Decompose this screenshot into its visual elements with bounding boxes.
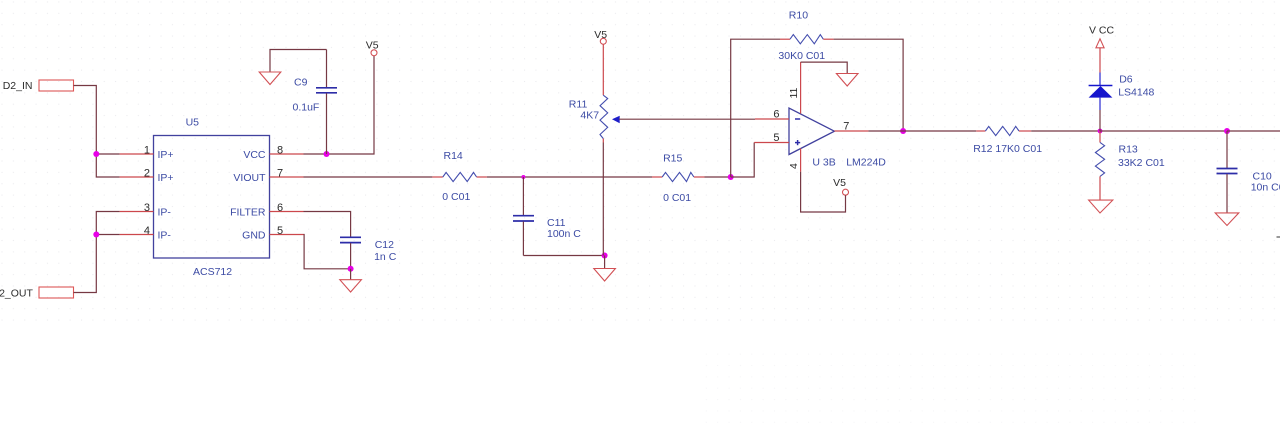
- svg-text:R15: R15: [663, 153, 682, 165]
- svg-text:LM224D: LM224D: [846, 157, 886, 169]
- svg-text:5: 5: [277, 225, 283, 237]
- U5 pin 4: [120, 225, 154, 237]
- wire R15 to feedback node: [705, 176, 731, 178]
- svg-text:1n C: 1n C: [374, 251, 397, 263]
- ground at R13: [1089, 200, 1113, 213]
- svg-text:VIOUT: VIOUT: [233, 172, 266, 184]
- svg-text:IP+: IP+: [158, 172, 174, 184]
- wire R10 to output node: [834, 39, 904, 131]
- svg-text:8: 8: [277, 144, 283, 156]
- wire FILTER to C12: [304, 212, 351, 237]
- wire C11 bottom to ground node: [523, 255, 604, 257]
- wire node to C10: [1100, 130, 1227, 132]
- svg-text:3: 3: [144, 202, 150, 214]
- wire VCC to D6: [1099, 48, 1101, 73]
- resistor R15: [652, 153, 705, 205]
- ground at C11: [594, 256, 616, 282]
- U3B pin 4 stub: [788, 149, 801, 172]
- capacitor C11: [513, 177, 581, 256]
- svg-text:10n C01: 10n C01: [1251, 182, 1280, 194]
- svg-text:6: 6: [773, 109, 779, 121]
- svg-text:D2_OUT: D2_OUT: [0, 288, 34, 300]
- junction C9/VCC node: [324, 151, 330, 157]
- svg-text:C12: C12: [375, 239, 394, 251]
- svg-text:U 3B: U 3B: [812, 157, 835, 169]
- wire output row to R12: [868, 130, 976, 132]
- svg-text:GND: GND: [242, 229, 266, 241]
- U5 pin 8: [270, 144, 304, 156]
- wire pin4 to V5: [801, 172, 846, 212]
- svg-text:V5: V5: [833, 177, 846, 189]
- U5 pin 7: [270, 167, 304, 179]
- wire R12 to D6 node: [1031, 130, 1100, 132]
- svg-text:U5: U5: [186, 117, 200, 129]
- edge mark right: [1277, 236, 1280, 238]
- IC U5 ACS712 box: [154, 136, 270, 259]
- svg-text:IP-: IP-: [158, 206, 172, 218]
- svg-text:IP-: IP-: [158, 229, 172, 241]
- wire VCC pin8 to V5: [304, 56, 375, 154]
- svg-text:2: 2: [144, 167, 150, 179]
- junction node IN: [93, 151, 99, 157]
- power V5 top: [366, 40, 379, 56]
- ground at C12: [340, 269, 362, 292]
- junction output node: [900, 128, 906, 134]
- resistor R14: [432, 150, 487, 203]
- svg-text:30K0 C01: 30K0 C01: [778, 50, 825, 62]
- svg-text:R10: R10: [789, 10, 808, 22]
- wire D2_IN to U5 pins 1/2: [74, 86, 120, 178]
- svg-text:R14: R14: [444, 150, 463, 162]
- wire GND pin5 to C12 node: [304, 235, 351, 269]
- ground at pin11: [836, 74, 858, 87]
- resistor R10: [778, 10, 833, 63]
- wire C9 to ground: [270, 50, 327, 73]
- svg-text:4K7: 4K7: [580, 110, 599, 122]
- svg-text:IP+: IP+: [158, 149, 174, 161]
- svg-text:0 C01: 0 C01: [442, 191, 470, 203]
- U5 pin 1: [120, 144, 154, 156]
- resistor R12: [973, 126, 1042, 155]
- ground at C9: [259, 72, 281, 85]
- wire feedback left leg: [731, 39, 780, 177]
- U5 pin names: [158, 149, 267, 242]
- power VCC: [1089, 25, 1115, 48]
- junction D6 node: [1098, 129, 1103, 134]
- svg-text:33K2 C01: 33K2 C01: [1118, 157, 1165, 169]
- port D2_OUT: [0, 287, 74, 300]
- svg-text:R12 17K0 C01: R12 17K0 C01: [973, 143, 1042, 155]
- junction feedback node: [728, 174, 734, 180]
- junction C12 ground node: [348, 266, 354, 272]
- svg-text:C9: C9: [294, 77, 308, 89]
- U3B pin 11 stub: [788, 62, 801, 113]
- wire node to op-amp pin5: [731, 143, 755, 178]
- svg-text:4: 4: [788, 163, 800, 169]
- svg-text:1: 1: [144, 144, 150, 156]
- U5 pin 5 GND: [270, 225, 304, 237]
- wire R14 to R15: [487, 176, 652, 178]
- svg-text:5: 5: [773, 132, 779, 144]
- junction C11 ground node: [602, 253, 608, 259]
- op-amp U3B: [789, 108, 886, 169]
- wire R11 wiper to op-amp pin6: [619, 118, 755, 120]
- svg-text:LS4148: LS4148: [1118, 87, 1154, 99]
- U3B pin 5 stub: [754, 132, 789, 144]
- svg-text:V CC: V CC: [1089, 25, 1115, 37]
- svg-text:0 C01: 0 C01: [663, 192, 691, 204]
- U3B pin 7 output stub: [834, 121, 868, 133]
- junction C11 node: [521, 175, 525, 179]
- capacitor C9: [293, 50, 338, 155]
- svg-text:D2_IN: D2_IN: [3, 80, 33, 92]
- svg-text:ACS712: ACS712: [193, 266, 232, 278]
- U5 pin 2: [120, 167, 154, 179]
- ground at C10: [1215, 213, 1239, 226]
- svg-text:11: 11: [788, 87, 800, 98]
- svg-text:D6: D6: [1119, 74, 1133, 86]
- svg-text:7: 7: [843, 121, 849, 133]
- resistor R13: [1095, 131, 1164, 200]
- capacitor C10: [1217, 131, 1280, 213]
- svg-text:7: 7: [277, 167, 283, 179]
- U3B pin 6 stub: [755, 109, 789, 121]
- junction C10 node: [1224, 128, 1230, 134]
- svg-text:0.1uF: 0.1uF: [293, 102, 320, 114]
- wire VIOUT row: [304, 176, 433, 178]
- wire pin11 to ground: [801, 62, 848, 73]
- capacitor C12: [340, 237, 397, 268]
- power V5 at R11: [594, 29, 607, 44]
- U5 pin 3: [120, 202, 154, 214]
- svg-text:FILTER: FILTER: [230, 206, 266, 218]
- svg-text:VCC: VCC: [243, 149, 266, 161]
- port D2_IN: [3, 80, 74, 92]
- diode D6: [1089, 73, 1155, 111]
- wire D6 to node: [1099, 110, 1101, 131]
- power V5 at pin4: [833, 177, 848, 195]
- wire node to right edge: [1227, 130, 1280, 132]
- wire D2_OUT to U5 pins 3/4: [74, 212, 120, 293]
- U5 pin 6 FILTER: [270, 202, 304, 214]
- svg-text:R13: R13: [1119, 144, 1138, 156]
- potentiometer R11: [569, 44, 620, 255]
- svg-text:4: 4: [144, 225, 150, 237]
- svg-text:100n C: 100n C: [547, 228, 581, 240]
- junction node OUT: [93, 232, 99, 238]
- svg-text:6: 6: [277, 202, 283, 214]
